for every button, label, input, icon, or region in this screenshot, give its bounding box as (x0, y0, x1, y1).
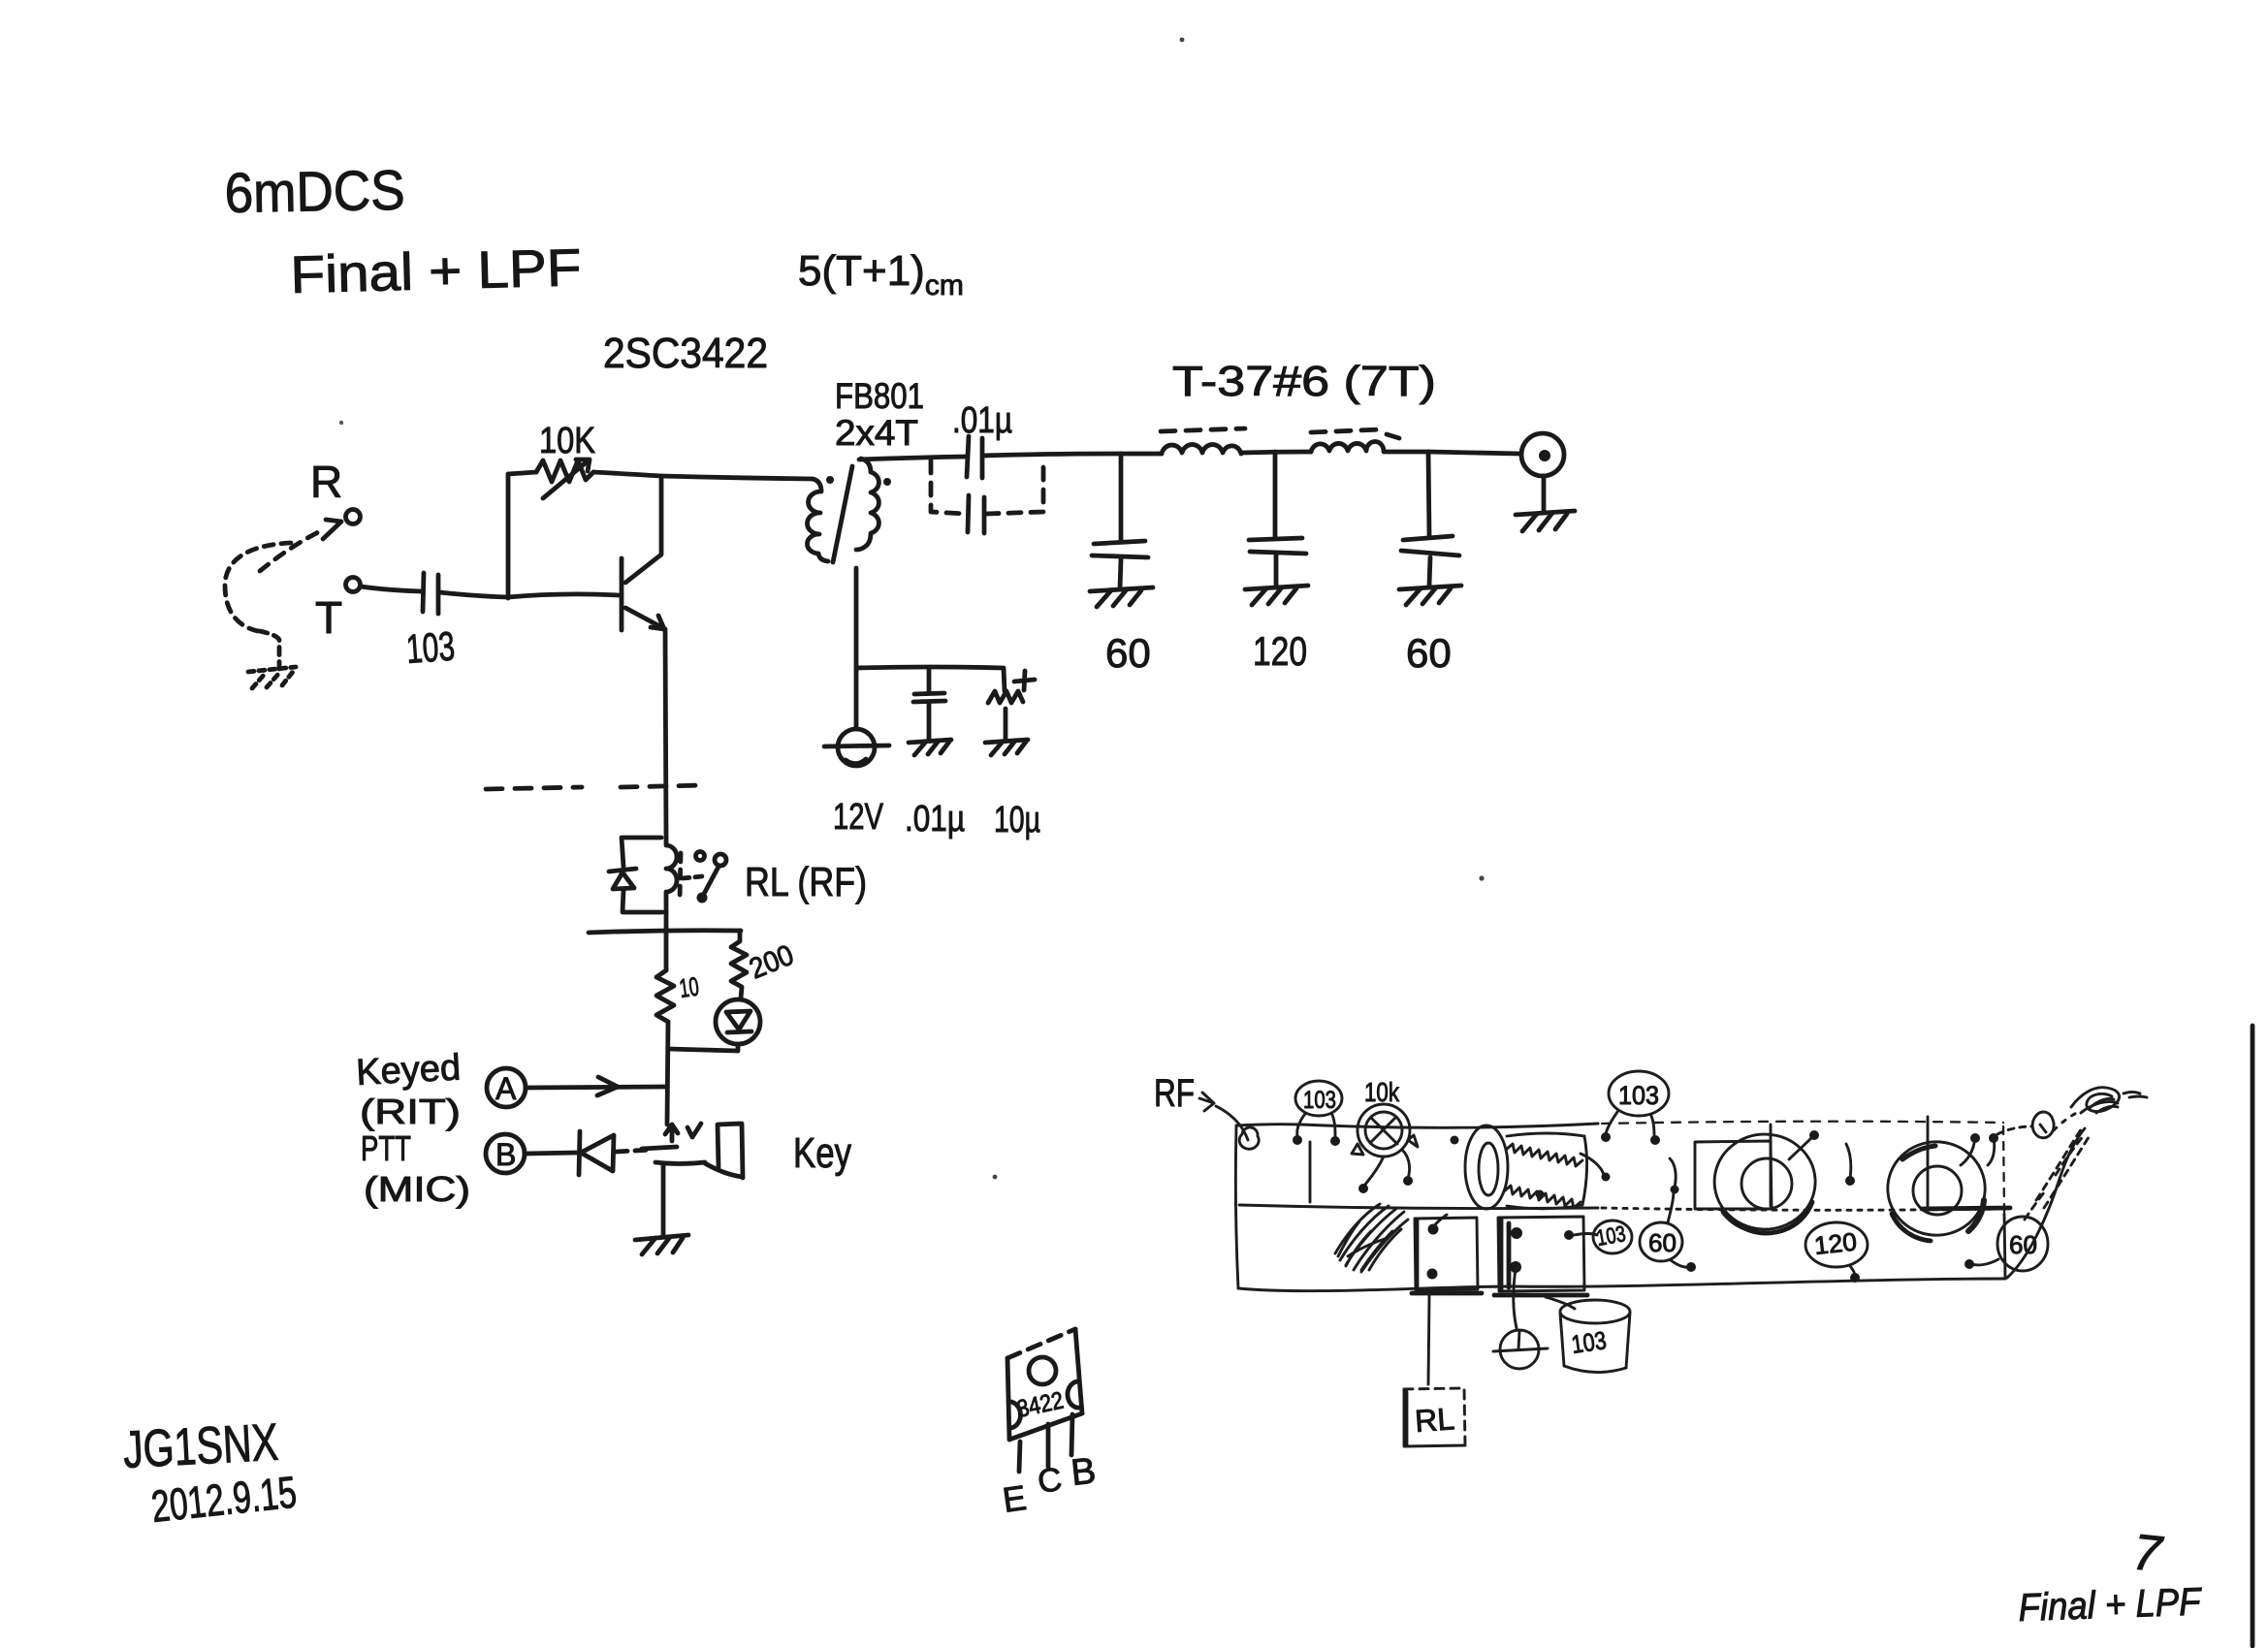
wire node3 to J1 (1428, 452, 1520, 454)
inductor L1 dashed core (1161, 428, 1245, 431)
switch arm (704, 867, 719, 894)
svg-text:.01µ: .01µ (952, 400, 1012, 441)
transistor Q2 channel (655, 1162, 705, 1164)
svg-text:60: 60 (1648, 1228, 1677, 1257)
switch contact small circle (696, 852, 705, 861)
wire toroid lead (1789, 1137, 1812, 1159)
wire secondary top to C2 (859, 457, 966, 460)
ground (1245, 586, 1308, 605)
speck dot (1479, 875, 1484, 880)
wire leads (1961, 1136, 1995, 1165)
coax tail dash (2129, 1096, 2147, 1097)
lead dot (1809, 1130, 1819, 1140)
wire trace vertical (1927, 1117, 1930, 1212)
node B (486, 1134, 525, 1173)
svg-text:120: 120 (1812, 1227, 1858, 1260)
coax dotted link (2054, 1111, 2081, 1130)
transformer T1 phase dot (883, 478, 891, 486)
output connector sketch (2032, 1112, 2054, 1138)
svg-text:PTT: PTT (361, 1128, 411, 1168)
wire decoupling rail (856, 667, 1005, 691)
ground (1399, 586, 1461, 605)
transformer sketch core (1465, 1125, 1508, 1209)
connector J1 center pin (1539, 450, 1550, 461)
trimmer 10k body (1352, 1104, 1418, 1157)
relay RL flyback loop wire (622, 838, 662, 912)
transformer T1 secondary winding (856, 459, 878, 550)
capacitor C8 60 (1401, 452, 1459, 586)
balloon 103 mid (1593, 1220, 1632, 1253)
svg-text:103: 103 (1618, 1081, 1659, 1110)
svg-text:120: 120 (1253, 628, 1307, 674)
transistor Q1 emitter stroke with arrow (625, 608, 665, 629)
switch contact dot (697, 893, 708, 903)
svg-text:R: R (310, 457, 342, 507)
wire secondary bottom down (854, 568, 859, 729)
capacitor C3 plates (968, 495, 984, 533)
pin dot (1427, 1269, 1438, 1280)
dashed boundary line (486, 785, 704, 789)
transformer T1 core (833, 466, 852, 562)
capacitor C2 .01u coupling (967, 436, 982, 478)
ground circle symbol (1493, 1330, 1548, 1369)
plus sign (1014, 671, 1035, 690)
wire bus horizontal (589, 931, 741, 933)
svg-text:10K: 10K (539, 421, 595, 461)
package leg E (1019, 1442, 1020, 1472)
svg-text:A: A (495, 1071, 517, 1106)
relay RL box (1404, 1388, 1465, 1446)
svg-text:103: 103 (1570, 1325, 1609, 1359)
svg-text:T: T (315, 592, 342, 643)
transistor Q1 2SC3422 base bar (620, 558, 624, 630)
wire base node up (506, 474, 511, 598)
svg-text:2x4T: 2x4T (835, 413, 918, 453)
transistor Q1 collector stroke (625, 477, 661, 583)
svg-text:(MIC): (MIC) (364, 1169, 470, 1209)
wire C1 to base node (439, 592, 508, 597)
toroid 60 thick bar (1922, 1208, 2010, 1209)
svg-text:FB801: FB801 (835, 376, 924, 416)
relay block 1 (1415, 1218, 1478, 1290)
balloon 120 (1805, 1222, 1868, 1276)
toroid 60 thick arc (1892, 1214, 1931, 1241)
speck dot (1180, 38, 1185, 43)
svg-text:60: 60 (1105, 630, 1151, 676)
wire LED to junction (668, 1044, 738, 1051)
wire L2 to node3 (1385, 450, 1428, 455)
relay RL box edge (1404, 1392, 1409, 1444)
svg-text:RL (RF): RL (RF) (745, 859, 867, 904)
svg-text:10k: 10k (1364, 1077, 1400, 1107)
svg-text:T-37#6 (7T): T-37#6 (7T) (1172, 358, 1436, 405)
wire rail node1 to L1 (1121, 452, 1162, 457)
ground (909, 740, 951, 755)
pin dot (1428, 1224, 1439, 1235)
transformer T1 FB801 primary winding (807, 479, 828, 561)
package left notch (1008, 1402, 1020, 1428)
diode D3 (579, 1131, 614, 1175)
speck dot (993, 1175, 998, 1180)
arrowhead to R (323, 520, 341, 539)
lead dot (1989, 1133, 1998, 1143)
inductor L1 (1162, 445, 1241, 454)
package outline 2SC3422 (1007, 1329, 1082, 1440)
relay core dashes (680, 853, 681, 900)
resistor VR1 10K zigzag (536, 460, 593, 482)
coax hatch dashes (2025, 1126, 2091, 1220)
node R contact (346, 510, 361, 524)
capacitor C5 lower plate and lead (1004, 709, 1008, 740)
capacitor C7 120 (1249, 452, 1306, 586)
lead dot (1970, 1133, 1980, 1143)
wire 10K to collector node (593, 472, 661, 476)
svg-text:6mDCS: 6mDCS (224, 159, 405, 225)
inductor L2 dashed core (1311, 429, 1399, 438)
inductor L2 (1311, 441, 1384, 452)
svg-text:Key: Key (793, 1129, 851, 1177)
toroid 60 inner (1913, 1166, 1962, 1215)
ground (635, 1235, 688, 1254)
board tail edge (2007, 1128, 2085, 1278)
svg-text:Final + LPF: Final + LPF (290, 238, 582, 304)
svg-text:2SC3422: 2SC3422 (603, 330, 768, 377)
wire D3 to gate (617, 1150, 652, 1152)
wire T to C1 (361, 586, 421, 591)
pin dot (1564, 1230, 1574, 1240)
lead dot (1671, 1186, 1679, 1194)
connector Key jack (705, 1124, 743, 1178)
coax scribble (2071, 1088, 2140, 1113)
wire relay1 to RL box (1428, 1296, 1429, 1384)
toroid 120 inner (1741, 1158, 1792, 1209)
wire winding tail (1581, 1154, 1604, 1175)
svg-text:3422: 3422 (1014, 1387, 1066, 1423)
transistor Q2 drain arrow (665, 1124, 701, 1141)
lead dot (1965, 1259, 1974, 1269)
pin dot (1510, 1261, 1521, 1273)
svg-text:5(T+1)cm: 5(T+1)cm (798, 247, 964, 301)
wire RF arrow (1199, 1093, 1248, 1140)
capacitor C6 60 (1092, 454, 1148, 588)
toroid 120 thick arc (1732, 1202, 1812, 1233)
package right notch (1068, 1381, 1080, 1408)
wire block2 to cylinder (1546, 1297, 1575, 1309)
lead dot (1845, 1176, 1855, 1186)
wire emitter down (665, 631, 666, 838)
wire from dot (1402, 1150, 1410, 1179)
connector J1 output (1521, 433, 1564, 476)
toroid 120 outer (1714, 1134, 1815, 1231)
package top edge dashed (1007, 1329, 1075, 1358)
svg-text:60: 60 (1406, 630, 1452, 676)
svg-text:10: 10 (678, 971, 701, 1002)
paper edge line (2251, 1026, 2255, 1646)
wire A to emitter line with arrow (527, 1077, 667, 1095)
relay RL coil (666, 838, 677, 912)
wire to 10K (508, 472, 536, 474)
pad circle (1239, 1127, 1259, 1149)
PCB board outline (1235, 1122, 2005, 1291)
svg-text:RL: RL (1414, 1401, 1455, 1439)
transformer sketch winding top (1506, 1144, 1582, 1166)
balloon 60 left (1640, 1191, 1689, 1267)
switch contact circle (715, 854, 726, 866)
svg-text:10µ: 10µ (994, 800, 1040, 840)
relay block 1 thick edges (1415, 1220, 1420, 1288)
toroid 60 outer (1888, 1142, 1985, 1235)
balloon 60 right (1971, 1217, 2048, 1271)
wire emitter continue (664, 912, 669, 933)
pin dot (1511, 1227, 1522, 1239)
transformer sketch shell (1507, 1133, 1587, 1209)
transformer sketch winding bottom (1504, 1186, 1581, 1208)
wire trace (1846, 1144, 1851, 1179)
pad rectangle (1695, 1141, 1772, 1209)
svg-text:Keyed: Keyed (355, 1047, 462, 1093)
ground (1516, 511, 1575, 531)
package hole (1029, 1357, 1056, 1384)
package leg B (1071, 1414, 1072, 1455)
wire Q2 source down (661, 1163, 666, 1237)
wire dashed changeover arm (260, 530, 322, 571)
capacitor C3 dashed alternate path (931, 460, 1043, 514)
transformer T1 phase dot (826, 476, 834, 484)
capacitor C5 10u electrolytic plate (988, 691, 1023, 703)
lead dot (1850, 1273, 1860, 1283)
terminal T (346, 578, 361, 592)
svg-text:E: E (1000, 1477, 1028, 1520)
wire L1 to node2 (1241, 452, 1311, 453)
wire pad vertical (1309, 1142, 1312, 1202)
trimmer lead wire (1364, 1157, 1384, 1186)
relay block 2 (1498, 1217, 1584, 1291)
wire pin stub (1433, 1215, 1447, 1227)
svg-text:RF: RF (1154, 1072, 1195, 1115)
lead dot (1403, 1176, 1413, 1186)
wire B to D3 (525, 1153, 577, 1154)
wire J1 stem (1542, 476, 1547, 511)
resistor R2 10 (656, 970, 674, 1022)
svg-text:103: 103 (1594, 1220, 1627, 1251)
lead dot (1293, 1135, 1302, 1145)
wire pin to balloon (1574, 1234, 1597, 1236)
svg-text:103: 103 (1303, 1087, 1336, 1114)
lead dot (1686, 1262, 1696, 1272)
scribble relay hatch (1335, 1204, 1408, 1272)
package leg C (1046, 1424, 1051, 1467)
svg-text:12V: 12V (833, 797, 883, 838)
capacitor C1 103 (423, 573, 438, 614)
svg-text:7: 7 (2130, 1524, 2166, 1583)
wire dashed drop (260, 631, 279, 669)
svg-text:(RIT): (RIT) (360, 1092, 461, 1131)
wire C2 to LPF (983, 454, 1121, 456)
pin dot (1536, 1190, 1545, 1199)
lead dot (1330, 1136, 1340, 1146)
wire base node to Q1 base (508, 594, 619, 597)
power 12V symbol (824, 729, 889, 766)
wire R2 to junction (667, 1022, 668, 1125)
capacitor balloon 103 (1295, 1081, 1342, 1136)
ground (1090, 587, 1153, 607)
relay block 2 thick edges (1499, 1220, 1504, 1289)
dash link to board (1997, 1126, 2032, 1134)
arrow of VR1 (543, 460, 590, 498)
svg-text:B: B (495, 1137, 516, 1172)
lead dot (1601, 1132, 1611, 1142)
resistor R3 200 (731, 931, 747, 998)
capacitor C4 .01u (913, 668, 945, 740)
relay contact dashes (683, 876, 702, 878)
transistor Q2 FET gate bar (642, 1147, 677, 1149)
svg-text:.01µ: .01µ (905, 799, 965, 840)
wire block2 pin down (1514, 1269, 1517, 1328)
capacitor cylinder 103 (1560, 1300, 1630, 1373)
wire trace mid board (1670, 1158, 1676, 1188)
svg-text:103: 103 (404, 623, 456, 672)
diode D1 flyback (609, 869, 636, 889)
lead dot (1650, 1135, 1660, 1145)
speck dot (339, 421, 343, 425)
balloon 103 top right (1606, 1071, 1669, 1137)
node A (487, 1068, 526, 1107)
wire dashed curve (225, 543, 291, 631)
wire down to R2 (664, 933, 669, 970)
ground (dashed sketch) (248, 667, 296, 688)
svg-text:200: 200 (745, 939, 798, 986)
wire collector rail to T1 (661, 476, 813, 479)
wire vertical through toroid (1770, 1125, 1773, 1206)
svg-text:C: C (1036, 1461, 1065, 1501)
svg-text:B: B (1070, 1451, 1099, 1494)
lead dot (1358, 1184, 1368, 1193)
pin dot (1451, 1136, 1459, 1145)
ground (985, 740, 1028, 755)
lead dot (1602, 1173, 1611, 1182)
svg-text:Final + LPF: Final + LPF (2018, 1580, 2204, 1630)
LED D2 (716, 999, 760, 1044)
